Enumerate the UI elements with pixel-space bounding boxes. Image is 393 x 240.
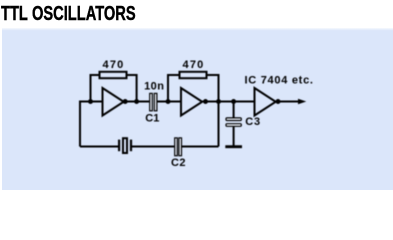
wire inv1 output to C1	[124, 101, 150, 103]
capacitor C1 plates	[150, 93, 157, 110]
svg-text:470: 470	[103, 59, 125, 71]
node R1 right junction	[134, 99, 139, 104]
wire feedback-left vertical and input segment	[80, 102, 103, 147]
node C1/R2 junction	[166, 99, 171, 104]
capacitor C3 plates	[226, 118, 241, 126]
wire C3 top vertical	[233, 102, 235, 118]
wire crystal to C2	[132, 146, 174, 148]
ground	[225, 145, 242, 148]
node R2/loop junction	[216, 99, 221, 104]
node inv2 output	[203, 99, 208, 104]
title TTL OSCILLATORS	[1, 3, 136, 26]
op-amp U2 inverter gate	[181, 88, 202, 116]
node inv3 output	[276, 99, 281, 104]
node input inv1	[88, 99, 93, 104]
capacitor C2 plates	[175, 138, 182, 156]
wire inv2 output to inv3 input	[202, 101, 254, 103]
svg-text:IC 7404 etc.: IC 7404 etc.	[245, 74, 314, 86]
svg-text:C1: C1	[145, 113, 159, 125]
wire R1 right lead+vertical	[127, 75, 137, 102]
wire C3 bottom vertical	[233, 127, 235, 146]
node inv1 output	[123, 99, 128, 104]
wire R2 right lead+vertical down to bottom loop	[207, 75, 219, 147]
resistor R2	[180, 72, 207, 78]
wire R2 left vertical+lead	[168, 75, 180, 102]
svg-text:10n: 10n	[144, 80, 164, 92]
schematic panel background	[2, 28, 393, 190]
resistor R1	[100, 72, 127, 78]
op-amp U3 inverter gate	[255, 88, 276, 116]
wire R1 left vertical+lead	[91, 75, 100, 102]
wire C2 to right corner	[182, 146, 219, 148]
wire C1 to inv2 input	[157, 101, 181, 103]
node C3 junction	[231, 99, 236, 104]
svg-text:470: 470	[183, 59, 205, 71]
op-amp U1 inverter gate	[103, 88, 124, 116]
svg-text:C3: C3	[245, 116, 261, 128]
arrowhead output	[298, 99, 306, 104]
svg-text:C2: C2	[171, 157, 186, 169]
wire output arrow line	[276, 101, 299, 103]
crystal X1	[118, 138, 132, 153]
wire bottom loop left to crystal	[80, 146, 118, 148]
